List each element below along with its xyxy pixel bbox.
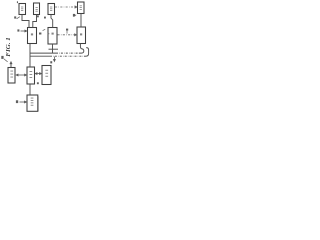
svg-text:FIG. 1: FIG. 1 xyxy=(6,37,12,56)
